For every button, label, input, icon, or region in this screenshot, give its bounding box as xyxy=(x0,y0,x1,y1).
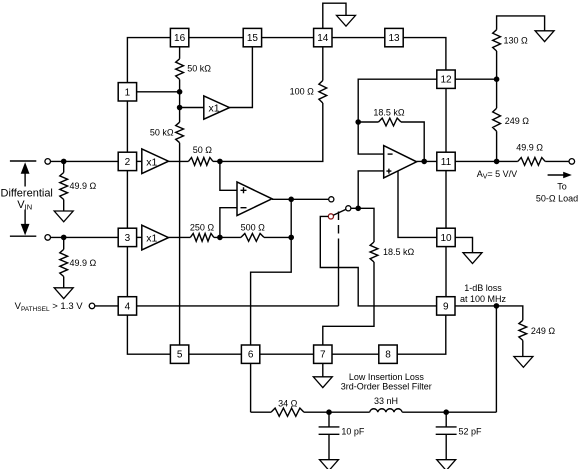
wire pin7 to pin8 xyxy=(332,353,379,355)
svg-text:10 pF: 10 pF xyxy=(341,427,365,437)
resistor 50 kOhm lower xyxy=(176,122,184,143)
svg-text:250 Ω: 250 Ω xyxy=(190,222,215,232)
wire switch control (dashed) xyxy=(338,239,340,306)
junction input- node xyxy=(61,235,67,241)
label To 50-Ohm Load with arrow xyxy=(536,172,578,204)
wire inductor to output node xyxy=(402,411,496,413)
svg-text:4: 4 xyxy=(125,301,131,312)
svg-text:VPATHSEL > 1.3 V: VPATHSEL > 1.3 V xyxy=(15,301,84,313)
svg-text:249 Ω: 249 Ω xyxy=(505,116,530,126)
buffer U3 x1 (pin3) xyxy=(142,225,169,250)
svg-text:9: 9 xyxy=(443,301,449,312)
wire pin14 to pin13 xyxy=(332,37,385,39)
switch contact C (bypass path) xyxy=(328,214,333,219)
wire pin12 to node xyxy=(455,78,496,80)
pin 14 xyxy=(314,28,332,46)
pin 6 xyxy=(241,345,259,363)
wire pin4 to pin5 xyxy=(127,315,170,354)
wire pin6 to filter xyxy=(250,363,252,412)
svg-text:3: 3 xyxy=(125,233,131,244)
wire pin12 to pin11 xyxy=(445,88,447,152)
svg-text:12: 12 xyxy=(440,75,452,86)
wire 49.9 to ground 2 xyxy=(63,277,65,288)
wire pin3 to pin4 xyxy=(126,247,128,297)
wire pin14 to top ground xyxy=(323,3,346,28)
wire pin11 to 49.9 ohm xyxy=(455,160,518,162)
wire input- to pin3 xyxy=(50,236,118,238)
wire vpathsel to pin4 xyxy=(95,305,119,307)
resistor 250 Ohm xyxy=(190,234,214,242)
junction 50 ohm node xyxy=(217,159,223,165)
svg-text:2: 2 xyxy=(125,157,131,168)
junction 52 pF node xyxy=(443,409,449,415)
wire pin9 node to filter output xyxy=(495,306,497,412)
wire 50k to node xyxy=(179,79,181,91)
wire 250 to 500 xyxy=(214,236,241,238)
resistor 249 Ohm upper xyxy=(493,108,501,131)
pin 2 xyxy=(118,152,136,170)
junction U5 feedback node xyxy=(355,119,361,125)
ground right 249 xyxy=(514,357,533,368)
svg-text:1-dB loss: 1-dB loss xyxy=(464,283,502,293)
ground input bottom xyxy=(54,288,73,299)
junction 250/500 node xyxy=(217,235,223,241)
svg-text:50 kΩ: 50 kΩ xyxy=(187,64,211,74)
pin 3 xyxy=(118,228,136,246)
capacitor C1 10 pF xyxy=(319,412,340,460)
junction U4 output node xyxy=(288,197,294,203)
wire pole to node xyxy=(351,207,358,209)
ground pin7 xyxy=(313,377,332,388)
wire 34 ohm to inductor xyxy=(304,411,370,413)
pin 11 xyxy=(437,152,455,170)
resistor 50 Ohm xyxy=(188,158,213,166)
ground input top xyxy=(54,211,73,222)
wire feedback node to U5 - input xyxy=(358,122,384,154)
wire buffer A out to pin15 xyxy=(230,47,253,108)
wire 50k lower to pin5 xyxy=(179,143,181,345)
op-amp U5 plus input mark xyxy=(386,169,391,174)
resistor 130 Ohm xyxy=(493,30,501,51)
svg-text:50 kΩ: 50 kΩ xyxy=(150,128,174,138)
wire pin13 to pin12 xyxy=(403,38,446,70)
wire pin1 to node xyxy=(137,91,180,93)
resistor 18.5 kOhm feedback xyxy=(379,118,402,126)
svg-text:at 100 MHz: at 100 MHz xyxy=(460,294,507,304)
svg-text:50 Ω: 50 Ω xyxy=(193,145,213,155)
ground top right xyxy=(535,31,554,42)
wire pin1 to pin2 xyxy=(126,101,128,152)
pin 10 xyxy=(437,228,455,246)
pin 16 xyxy=(170,28,188,46)
svg-text:8: 8 xyxy=(385,350,391,361)
svg-text:18.5 kΩ: 18.5 kΩ xyxy=(383,247,415,257)
pin 5 xyxy=(170,345,188,363)
svg-text:130 Ω: 130 Ω xyxy=(504,35,529,45)
wire U5 inverting tap to pin10 xyxy=(398,171,437,238)
wire U4 + input to 50 ohm node xyxy=(220,161,237,190)
resistor 49.9 Ohm output xyxy=(518,158,545,166)
wire pin16 to 50k xyxy=(179,47,181,59)
wire 500 to node xyxy=(264,236,291,238)
svg-text:x1: x1 xyxy=(146,233,157,245)
op-amp U5 minus input mark xyxy=(388,153,393,155)
pin 4 xyxy=(118,297,136,315)
pin 7 xyxy=(314,345,332,363)
resistor 18.5 kOhm lower xyxy=(370,242,378,262)
wire pin10 to ground xyxy=(455,237,472,252)
svg-text:49.9 Ω: 49.9 Ω xyxy=(516,143,543,153)
wire 130 ohm to top right ground xyxy=(497,16,545,31)
resistor 34 Ohm xyxy=(271,408,304,416)
svg-text:AV= 5 V/V: AV= 5 V/V xyxy=(477,169,517,181)
terminal VPATHSEL input xyxy=(89,303,95,309)
resistor 49.9 Ohm input bottom xyxy=(60,249,68,276)
svg-text:500 Ω: 500 Ω xyxy=(241,222,266,232)
wire pin15 to pin14 xyxy=(262,37,314,39)
wire bypass contact to pin9 xyxy=(320,216,436,306)
svg-text:1: 1 xyxy=(125,87,131,98)
junction 500 ohm node xyxy=(288,235,294,241)
svg-text:3rd-Order Bessel Filter: 3rd-Order Bessel Filter xyxy=(341,381,432,391)
wire input+ to pin2 xyxy=(50,160,118,162)
wire buffer B to 50 ohm xyxy=(169,160,189,162)
junction U5 output node xyxy=(421,159,427,165)
resistor 500 Ohm xyxy=(241,234,264,242)
wire 49.9 to ground xyxy=(63,200,65,212)
wire pin6 to pin7 xyxy=(260,353,314,355)
wire feedback wire left xyxy=(358,121,378,123)
wire pin4 control row xyxy=(137,305,339,307)
wire U5 output to pin11 xyxy=(417,160,437,162)
wire 249 ohm to ground xyxy=(522,340,524,356)
ground top middle xyxy=(337,15,356,26)
wire 18.5k lower to pin7 xyxy=(323,262,374,345)
svg-text:34 Ω: 34 Ω xyxy=(278,399,298,409)
resistor 249 Ohm right xyxy=(519,320,527,340)
svg-text:49.9 Ω: 49.9 Ω xyxy=(70,181,97,191)
label Differential (with halo) xyxy=(0,187,53,210)
wire 50 ohm to node xyxy=(213,160,220,162)
svg-text:50-Ω Load: 50-Ω Load xyxy=(536,194,578,204)
svg-text:11: 11 xyxy=(441,157,452,168)
wire U4 - input to 250/500 node xyxy=(220,208,237,238)
junction switch pole node xyxy=(355,206,361,212)
wire 100 ohm to 50 ohm node xyxy=(220,103,323,161)
wire filter input wire xyxy=(251,411,271,413)
pin 1 xyxy=(118,83,136,101)
junction buffer input node xyxy=(177,105,183,111)
wire pin8 to pin9 xyxy=(397,315,446,354)
svg-text:100 Ω: 100 Ω xyxy=(290,86,315,96)
wire U4 output to switch xyxy=(272,198,329,200)
pin 15 xyxy=(243,28,261,46)
wire pin12 to feedback node xyxy=(358,79,437,122)
node differential input bracket xyxy=(10,161,36,236)
wire 49.9 ohm to output terminal xyxy=(545,160,569,162)
switch contact A (filter path) xyxy=(329,197,334,202)
svg-text:10: 10 xyxy=(440,233,452,244)
svg-text:52 pF: 52 pF xyxy=(459,427,483,437)
wire 249 ohm to output node xyxy=(496,131,498,161)
junction output node xyxy=(494,159,500,165)
resistor 50 kOhm upper xyxy=(176,59,184,80)
switch pole B xyxy=(346,206,351,211)
wire feedback column to pin6 xyxy=(251,199,292,345)
switch lever xyxy=(333,209,346,215)
svg-text:6: 6 xyxy=(248,350,254,361)
svg-text:x1: x1 xyxy=(146,156,157,168)
wire node to buffer node xyxy=(179,92,181,108)
svg-text:18.5 kΩ: 18.5 kΩ xyxy=(373,108,405,118)
pin 8 xyxy=(379,345,397,363)
wire to 49.9 bottom xyxy=(63,237,65,249)
wire pin2 to pin3 xyxy=(126,171,128,229)
op-amp U4 minus input mark xyxy=(241,207,247,209)
svg-text:15: 15 xyxy=(247,33,259,44)
svg-text:Differential: Differential xyxy=(1,188,53,200)
wire pin1 column to pin16 xyxy=(127,38,170,83)
pin 9 xyxy=(437,297,455,315)
buffer U1 x1 (top) xyxy=(204,96,230,119)
op-amp U4 plus input mark xyxy=(241,187,247,193)
wire node to buffer A xyxy=(180,107,204,109)
pin 13 xyxy=(385,28,403,46)
ground 10 pF xyxy=(320,460,339,471)
terminal input- xyxy=(45,235,51,241)
wire buffer C to 250 ohm xyxy=(169,236,191,238)
wire pin7 to ground xyxy=(322,363,324,376)
svg-text:14: 14 xyxy=(317,33,329,44)
svg-text:16: 16 xyxy=(174,33,186,44)
resistor 49.9 Ohm input top xyxy=(60,173,68,200)
svg-text:5: 5 xyxy=(177,350,183,361)
svg-text:To: To xyxy=(557,182,567,192)
junction pin1 node xyxy=(177,89,183,95)
wire pin5 to pin6 xyxy=(189,353,242,355)
terminal input+ xyxy=(45,159,51,165)
wire feedback to U5 output xyxy=(401,122,424,161)
terminal output xyxy=(569,159,575,165)
buffer U2 x1 (pin2) xyxy=(142,149,169,174)
svg-text:49.9 Ω: 49.9 Ω xyxy=(70,258,97,268)
wire pin2 to buffer B xyxy=(137,160,142,162)
wire pole node to 18.5k lower xyxy=(358,208,374,242)
wire pin9 to 249 ohm load xyxy=(455,306,523,320)
svg-text:249 Ω: 249 Ω xyxy=(531,326,556,336)
capacitor C2 52 pF xyxy=(436,412,457,460)
svg-text:x1: x1 xyxy=(209,102,220,114)
wire pin14 to 100 ohm xyxy=(322,47,324,81)
svg-text:13: 13 xyxy=(388,33,400,44)
op-amp U4 (filter) xyxy=(237,182,272,216)
junction pin9 node xyxy=(494,303,500,309)
resistor 100 Ohm xyxy=(319,81,327,104)
junction input+ node xyxy=(61,159,67,165)
junction pin12 node xyxy=(494,76,500,82)
pin 12 xyxy=(437,70,455,88)
svg-text:7: 7 xyxy=(320,350,326,361)
ground pin10 xyxy=(463,253,482,264)
wire to 49.9 top xyxy=(63,161,65,172)
svg-text:33 nH: 33 nH xyxy=(374,396,398,406)
wire 130 ohm to 249 ohm xyxy=(496,51,498,108)
junction 10 pF node xyxy=(326,409,332,415)
ground 52 pF xyxy=(437,460,456,471)
wire pin16 to pin15 xyxy=(189,37,243,39)
wire node to 50k lower xyxy=(179,108,181,123)
wire pin11 to pin10 xyxy=(445,171,447,229)
wire pole node to U5 + input xyxy=(358,171,384,208)
inductor L1 33 nH xyxy=(370,409,402,412)
wire pin10 to pin9 xyxy=(445,247,447,297)
wire pin3 to buffer C xyxy=(137,236,142,238)
op-amp U5 (output) xyxy=(384,146,417,178)
